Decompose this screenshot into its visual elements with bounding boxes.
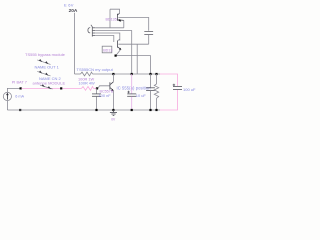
svg-text:10 uF: 10 uF bbox=[136, 93, 147, 98]
switch SW1 bbox=[37, 60, 50, 65]
wire mid rail bbox=[75, 73, 81, 75]
svg-text:100 nF: 100 nF bbox=[99, 93, 112, 98]
wire pink bus bbox=[22, 87, 98, 91]
transistor Q2 bbox=[117, 39, 119, 41]
junction bbox=[20, 87, 22, 89]
junction dots ground rail bbox=[95, 109, 97, 111]
wire power vertical bbox=[74, 13, 76, 74]
junction mid rail dots bbox=[112, 73, 114, 75]
ground bbox=[110, 110, 117, 116]
capacitor C6 pink loop bbox=[160, 74, 178, 110]
resistor R1 bbox=[81, 72, 93, 76]
wire ground rail bbox=[7, 109, 160, 111]
connector J1 bbox=[88, 28, 90, 33]
svg-text:100 uF: 100 uF bbox=[183, 87, 196, 92]
current source I1 bbox=[3, 92, 11, 100]
svg-text:E 6V: E 6V bbox=[64, 2, 74, 7]
resistor R2 bbox=[82, 87, 94, 91]
wire pin2 bbox=[95, 29, 132, 31]
capacitor C4 bbox=[150, 74, 152, 88]
wire Q2 emitter rail bbox=[116, 50, 121, 56]
svg-text:BD13: BD13 bbox=[103, 49, 112, 53]
junction emitter bbox=[115, 55, 117, 57]
wire pin4 bbox=[95, 36, 114, 43]
wire pin3 bbox=[95, 33, 120, 41]
svg-text:TS555CN my output: TS555CN my output bbox=[77, 67, 114, 72]
label Q2 box bbox=[102, 46, 112, 53]
wire Q1 base to C1 bbox=[118, 18, 148, 31]
resistor R3 bbox=[156, 74, 158, 84]
capacitor C5 bbox=[96, 88, 98, 93]
svg-text:antenne MODULE: antenne MODULE bbox=[33, 81, 66, 86]
svg-text:PI BAT 7: PI BAT 7 bbox=[12, 79, 27, 84]
switch SW3 bbox=[40, 85, 53, 89]
capacitor C3 bbox=[131, 74, 133, 94]
junction bbox=[19, 109, 21, 111]
wire left loop bbox=[7, 88, 20, 92]
svg-text:20A: 20A bbox=[69, 8, 78, 14]
svg-text:BD135: BD135 bbox=[106, 17, 117, 21]
wire Q2 aux bbox=[136, 44, 138, 74]
wire Q1 emitter drop bbox=[123, 20, 125, 27]
svg-text:100R 4W: 100R 4W bbox=[79, 81, 96, 86]
svg-text:0V: 0V bbox=[111, 118, 116, 122]
wire Q2 base to C1 bbox=[118, 43, 148, 45]
junction pink right bbox=[96, 87, 98, 89]
junction pink mid bbox=[60, 87, 62, 89]
transistor Q1 bbox=[110, 9, 120, 13]
svg-text:NAME OUT 1: NAME OUT 1 bbox=[35, 65, 60, 70]
wire source bottom bbox=[6, 101, 8, 110]
wire pin2 vertical bbox=[131, 30, 133, 74]
svg-text:IC 555(a) position: IC 555(a) position bbox=[117, 85, 152, 90]
capacitor C1 bbox=[144, 31, 153, 34]
wire pin1 bbox=[95, 27, 124, 29]
svg-text:6 mA: 6 mA bbox=[15, 94, 24, 98]
svg-text:TS555 bypass module: TS555 bypass module bbox=[25, 52, 66, 57]
switch SW2 bbox=[37, 71, 50, 76]
transistor Q3 bbox=[98, 86, 110, 89]
